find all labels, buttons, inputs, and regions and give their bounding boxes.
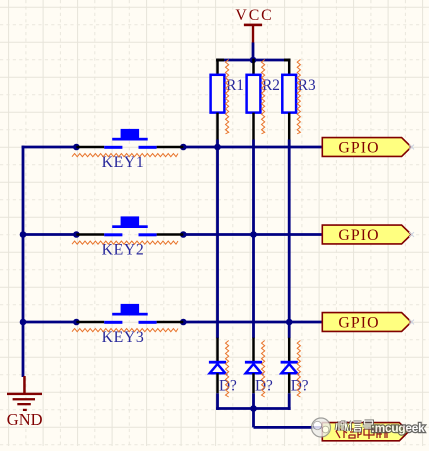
wire pin cathode D3 — [288, 373, 291, 393]
wire top bus black corner right — [284, 59, 291, 62]
node column junction row 2 — [250, 231, 257, 238]
wire column 3 middle — [288, 140, 291, 339]
port interrupt (Chinese) — [322, 423, 408, 441]
wire VCC stem — [252, 43, 255, 61]
wire row 3 left segment — [22, 321, 77, 324]
resistor R1 — [211, 75, 244, 113]
node switch right pin row 1 — [180, 144, 187, 151]
node left bus row 2 — [20, 231, 27, 238]
wire pin anode D3 — [288, 338, 291, 361]
error squiggle D2 — [262, 341, 265, 398]
wire row 2 right segment — [183, 233, 323, 236]
node switch left pin row 1 — [73, 144, 80, 151]
diode D3 — [281, 361, 309, 395]
wire column 2 middle — [252, 140, 255, 339]
error squiggle R1 — [226, 60, 229, 134]
wire pin bottom R1 — [216, 113, 219, 140]
wire pin bottom R2 — [252, 113, 255, 140]
push button KEY3 — [76, 304, 183, 346]
wire left bus vertical — [22, 146, 25, 377]
error squiggle D1 — [226, 341, 229, 398]
svg-text::mcugeek: :mcugeek — [371, 421, 425, 435]
node bottom junction — [250, 405, 257, 412]
node switch left pin row 2 — [73, 231, 80, 238]
node VCC junction — [250, 57, 257, 64]
error squiggle R3 — [297, 60, 300, 134]
svg-text:GPIO: GPIO — [338, 139, 379, 156]
wire pin top R1 — [216, 59, 219, 76]
wire below D3 — [288, 393, 291, 410]
error squiggle KEY1 — [72, 154, 178, 157]
wire pin bottom R3 — [288, 113, 291, 140]
error squiggle R2 — [262, 60, 265, 134]
wire top bus black corner left — [216, 59, 224, 62]
svg-text:GND: GND — [7, 410, 43, 429]
resistor R2 — [247, 75, 280, 113]
power symbol VCC — [235, 7, 273, 43]
wire row 1 right segment — [183, 146, 323, 149]
watermark text — [336, 421, 425, 435]
wire bottom bus — [216, 407, 291, 410]
wire pin cathode D2 — [252, 373, 255, 393]
wire pin cathode D1 — [216, 373, 219, 393]
wire pin top R3 — [288, 59, 291, 76]
wire bottom drop — [252, 409, 255, 428]
label interrupt port text — [336, 427, 389, 439]
node switch right pin row 2 — [180, 231, 187, 238]
push button KEY2 — [76, 216, 183, 258]
svg-text:GPIO: GPIO — [338, 314, 379, 331]
watermark logo — [312, 418, 331, 437]
port GPIO row 3 — [322, 313, 414, 332]
svg-text:GPIO: GPIO — [338, 227, 379, 244]
wire pin anode D2 — [252, 338, 255, 361]
wire row 3 right segment — [183, 321, 323, 324]
wire pin anode D1 — [216, 338, 219, 361]
node column junction row 3 — [286, 319, 293, 326]
node column junction row 1 — [214, 144, 221, 151]
resistor R3 — [282, 75, 316, 113]
node switch left pin row 3 — [73, 319, 80, 326]
port GPIO row 1 — [322, 138, 414, 157]
wire column 1 middle — [216, 140, 219, 339]
wire row 1 left segment — [22, 146, 77, 149]
wire top bus — [216, 59, 290, 62]
error squiggle KEY2 — [72, 241, 178, 244]
wire row 2 left segment — [22, 233, 77, 236]
wire below D2 — [252, 393, 255, 410]
node left bus row 3 — [20, 319, 27, 326]
diode D1 — [209, 361, 237, 395]
push button KEY1 — [76, 129, 183, 171]
wire below D1 — [216, 393, 219, 410]
svg-text:VCC: VCC — [235, 7, 273, 24]
port GPIO row 2 — [322, 225, 414, 244]
wire to interrupt port — [254, 426, 324, 429]
ground GND — [7, 376, 43, 429]
error squiggle D3 — [297, 341, 300, 398]
diode D2 — [245, 361, 273, 395]
wire pin top R2 — [252, 59, 255, 76]
node switch right pin row 3 — [180, 319, 187, 326]
error squiggle KEY3 — [72, 329, 178, 332]
